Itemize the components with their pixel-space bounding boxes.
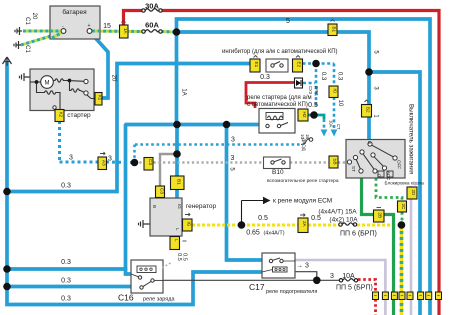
svg-text:L: L	[174, 239, 179, 242]
svg-text:к реле модуля ЕСМ: к реле модуля ЕСМ	[273, 198, 332, 205]
svg-text:стартер: стартер	[67, 112, 91, 119]
svg-text:2А: 2А	[302, 221, 307, 228]
svg-text:ингибитор (для а/м с автоматич: ингибитор (для а/м с автоматической КП)	[222, 48, 338, 55]
svg-text:СУЗ: СУЗ	[308, 86, 313, 94]
svg-text:0.5: 0.5	[311, 215, 321, 222]
svg-text:5: 5	[286, 18, 290, 25]
svg-text:М: М	[45, 81, 50, 87]
svg-text:3: 3	[330, 273, 334, 280]
svg-text:0.3: 0.3	[61, 259, 71, 266]
svg-text:(4х4А/Т): (4х4А/Т)	[263, 231, 284, 237]
svg-text:0.3: 0.3	[61, 278, 71, 285]
svg-text:С16: С16	[118, 293, 134, 303]
svg-text:2В: 2В	[378, 213, 383, 219]
svg-text:30А: 30А	[145, 2, 159, 11]
svg-text:1А: 1А	[123, 28, 128, 35]
svg-text:2С: 2С	[401, 204, 406, 211]
svg-text:диод: диод	[315, 86, 320, 96]
svg-text:С17: С17	[249, 282, 265, 292]
svg-text:АСС: АСС	[386, 171, 391, 181]
svg-text:→ 3: → 3	[296, 263, 309, 270]
svg-text:К1: К1	[98, 95, 103, 101]
svg-text:0.5: 0.5	[258, 215, 268, 222]
svg-text:С3: С3	[160, 188, 165, 194]
svg-text:10А: 10А	[329, 120, 334, 128]
svg-text:ST: ST	[351, 166, 356, 172]
svg-text:Выключатель зажигания: Выключатель зажигания	[408, 104, 415, 174]
svg-text:К2: К2	[59, 112, 64, 118]
svg-text:Н2: Н2	[302, 112, 307, 118]
svg-text:10А: 10А	[342, 273, 355, 280]
svg-text:2D: 2D	[411, 190, 416, 197]
svg-text:Б1: Б1	[332, 27, 337, 33]
svg-text:3: 3	[108, 156, 112, 163]
svg-text:с автоматической КП): с автоматической КП)	[247, 101, 308, 108]
svg-text:ЬВ: ЬВ	[333, 159, 338, 165]
svg-text:С1: С1	[24, 45, 30, 53]
svg-text:С3: С3	[148, 159, 153, 165]
svg-text:Б2: Б2	[366, 107, 371, 113]
svg-text:Е1: Е1	[254, 62, 259, 68]
svg-text:реле подогревателя: реле подогревателя	[266, 289, 317, 295]
svg-text:60А: 60А	[145, 21, 159, 30]
svg-text:А3: А3	[102, 160, 107, 166]
svg-text:20: 20	[111, 75, 117, 82]
svg-text:IG: IG	[187, 222, 192, 227]
svg-text:В10: В10	[272, 169, 284, 176]
svg-text:Блокировка ключа: Блокировка ключа	[385, 181, 425, 186]
svg-text:реле стартера (для а/м: реле стартера (для а/м	[247, 95, 312, 101]
svg-text:СТ: СТ	[336, 124, 341, 130]
svg-text:генератор: генератор	[186, 203, 217, 210]
svg-text:0.3: 0.3	[260, 74, 270, 81]
svg-text:15: 15	[103, 23, 111, 30]
svg-text:ОFF: ОFF	[397, 160, 402, 169]
svg-text:ДИОД: ДИОД	[302, 138, 307, 151]
svg-text:ПП 5 (БРП): ПП 5 (БРП)	[336, 285, 373, 292]
svg-text:батарея: батарея	[62, 8, 87, 16]
svg-text:Е2: Е2	[297, 62, 302, 68]
svg-text:1А: 1А	[181, 88, 187, 95]
svg-text:IG: IG	[177, 204, 182, 209]
svg-text:В: В	[152, 205, 157, 208]
svg-text:+: +	[88, 23, 91, 29]
svg-text:ПП 6 (БРП): ПП 6 (БРП)	[340, 231, 377, 238]
svg-text:0.5: 0.5	[176, 253, 182, 261]
svg-text:10: 10	[337, 100, 343, 107]
svg-text:0.3: 0.3	[61, 296, 71, 303]
svg-text:В1: В1	[177, 179, 182, 185]
svg-text:С1: С1	[24, 17, 30, 25]
svg-text:0.65: 0.65	[246, 230, 260, 237]
svg-text:(4х2) 10А: (4х2) 10А	[329, 217, 358, 224]
svg-text:20: 20	[31, 13, 37, 20]
svg-text:0.3: 0.3	[337, 72, 343, 81]
svg-text:0.5: 0.5	[308, 102, 318, 109]
svg-text:3: 3	[231, 155, 235, 162]
svg-text:3: 3	[69, 155, 73, 162]
svg-text:0.3: 0.3	[61, 183, 71, 190]
svg-text:0.5: 0.5	[182, 253, 188, 261]
svg-text:(4х4А/Т) 15А: (4х4А/Т) 15А	[318, 209, 357, 216]
svg-text:0.3: 0.3	[320, 72, 326, 81]
svg-text:3: 3	[231, 137, 235, 144]
svg-text:реле заряда: реле заряда	[143, 297, 175, 303]
svg-text:вспомогательное реле стартера: вспомогательное реле стартера	[267, 179, 339, 184]
svg-text:Ю: Ю	[333, 89, 338, 94]
svg-text:В: В	[367, 141, 372, 144]
